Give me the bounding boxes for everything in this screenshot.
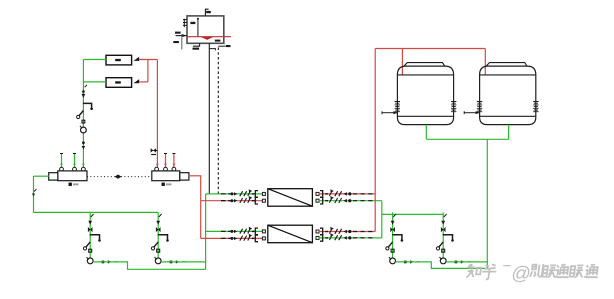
spare riser arrows red — [166, 154, 174, 168]
pump P0 — [81, 127, 87, 133]
wm tong1 — [554, 264, 570, 277]
manifold body — [58, 171, 87, 181]
vent label — [206, 11, 211, 13]
manifold body — [152, 171, 180, 181]
level gauge — [183, 19, 187, 28]
manifold right cap — [180, 173, 189, 180]
storage tank T1 — [382, 63, 456, 125]
wm zhi — [466, 264, 482, 278]
green return riser — [381, 201, 383, 238]
tank right label — [215, 40, 221, 42]
heat pump box 1 — [106, 55, 132, 65]
manifold label — [162, 183, 165, 186]
manifold stubs — [60, 167, 86, 171]
pump branch B4 — [436, 212, 470, 263]
heat exchanger HX1 — [268, 189, 313, 207]
overflow tick — [209, 49, 215, 51]
heat exchanger HX2 — [268, 225, 313, 243]
HX1 red supply out — [318, 193, 375, 195]
drain pipe left — [193, 43, 200, 46]
tank2 green outlet — [508, 125, 510, 140]
HX2 green return — [318, 237, 382, 239]
dotted link between manifolds — [87, 176, 152, 178]
green suction header — [34, 211, 159, 213]
red riser to manifold — [156, 60, 158, 168]
B1 discharge pipe — [93, 262, 206, 269]
wm nuan2 — [569, 265, 584, 277]
riser arrow into manifold — [82, 164, 85, 168]
HX port flanges left — [262, 192, 265, 240]
green downcomer — [33, 176, 35, 212]
storage tank T2 — [464, 63, 538, 125]
signal tick — [218, 45, 225, 47]
HX1 red return — [201, 200, 263, 202]
red drop tank1 — [401, 49, 403, 76]
drain label — [193, 48, 200, 50]
valve trains right — [320, 189, 372, 197]
box1 inlet arrow — [134, 57, 140, 61]
overflow drop pipe — [208, 43, 210, 194]
manifold left cap — [49, 173, 58, 180]
water line — [187, 36, 231, 38]
red pipe box2 — [139, 81, 148, 83]
wm tm tick — [503, 265, 511, 267]
pump branch B1 — [83, 212, 117, 263]
svg-text:@: @ — [510, 264, 532, 285]
vent pipe — [205, 9, 208, 16]
tank body — [187, 16, 224, 43]
green pipe to left — [34, 175, 49, 177]
tank1 green outlet — [425, 125, 427, 140]
signal label — [226, 45, 231, 47]
manifold stubs — [155, 167, 176, 171]
red top header — [375, 48, 485, 50]
wm hu — [481, 264, 497, 279]
pump branch B2 — [151, 212, 185, 263]
red pipe box1 — [139, 59, 157, 61]
link diamond — [115, 175, 122, 179]
wm nuan1 — [542, 265, 557, 277]
green suction header right — [382, 213, 443, 215]
red pipe to right — [189, 175, 202, 177]
HX1 green supply — [206, 193, 263, 195]
wm chuang — [530, 264, 543, 277]
riser arrow — [156, 164, 159, 168]
signal drop pipe (dashed) — [217, 47, 219, 194]
HX2 red return — [201, 237, 263, 239]
butterfly valve — [82, 90, 85, 93]
B2 discharge pipe — [161, 261, 206, 263]
flow arrow — [32, 193, 35, 197]
red drop tank2 — [484, 49, 486, 76]
green drop to pumps — [486, 139, 488, 268]
internal pipe label — [190, 22, 195, 24]
riser valve — [153, 150, 157, 152]
HX2 green supply — [206, 230, 263, 232]
B3 discharge pipe — [395, 262, 487, 269]
inlet stub label — [173, 41, 179, 43]
green HX riser — [205, 194, 207, 269]
green pipe box2 — [83, 81, 106, 83]
spare riser arrows — [62, 154, 75, 168]
box2 inlet arrow — [134, 79, 140, 83]
red riser to tanks — [374, 49, 376, 232]
inlet pipe arrow — [176, 35, 187, 37]
red link pipe — [147, 60, 149, 82]
green pipe box1 — [83, 59, 106, 61]
green riser — [82, 60, 84, 168]
valve trains left — [221, 189, 258, 197]
manifold label — [69, 183, 72, 186]
HX port flanges right — [316, 192, 319, 239]
heat pump box 2 — [106, 78, 132, 88]
wm tong2 — [584, 264, 600, 277]
tank bottom header — [426, 138, 508, 140]
B4 discharge pipe — [446, 261, 487, 263]
inlet stub — [181, 36, 183, 50]
HX2 red supply out — [318, 231, 375, 233]
strainer — [79, 111, 84, 117]
check valve dots — [82, 141, 85, 144]
inlet label — [175, 32, 181, 34]
internal pipe — [197, 18, 199, 36]
gauge dot — [82, 120, 85, 123]
water level triangle — [201, 37, 213, 40]
HX1 green return — [318, 200, 382, 202]
red HX downcomer — [200, 176, 202, 239]
flex connector — [83, 103, 92, 107]
pump branch B3 — [386, 212, 420, 263]
